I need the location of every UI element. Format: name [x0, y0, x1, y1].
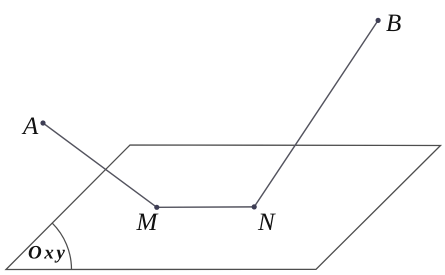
angle arc at vertex O: [52, 223, 71, 269]
label M: [136, 214, 158, 230]
point B: [376, 18, 381, 23]
wire segment M-N: [157, 206, 254, 208]
point N: [252, 204, 257, 209]
label Oxy: [29, 246, 65, 263]
plane parallelogram Oxy: [6, 145, 441, 270]
label B: [386, 15, 400, 31]
label A: [22, 117, 39, 134]
wire segment A-M: [43, 123, 157, 207]
label N: [258, 214, 276, 230]
point A: [40, 120, 45, 125]
wire segment N-B: [254, 20, 378, 207]
point M: [154, 205, 159, 210]
